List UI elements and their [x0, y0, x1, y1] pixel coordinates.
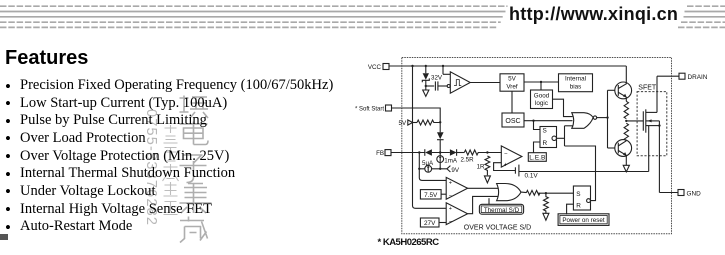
current source 1mA	[437, 153, 458, 169]
wire OSC to latch1 S	[534, 121, 541, 130]
resistor R3 (lower driver)	[624, 123, 628, 140]
svg-text:27V: 27V	[424, 220, 436, 227]
ground arrow below zener	[423, 86, 429, 96]
SenseFET M1	[643, 109, 659, 132]
big glyph 3	[180, 155, 207, 183]
watermark (gray seal of distributor)	[138, 82, 213, 255]
IC outline box	[402, 58, 672, 234]
svg-text:+: +	[504, 162, 508, 168]
svg-text:32V: 32V	[431, 75, 443, 82]
svg-text:* Soft Start: * Soft Start	[355, 106, 384, 112]
block 27V	[420, 218, 446, 227]
pin Soft Start	[355, 105, 392, 112]
resistor R5 (vertical)	[544, 193, 549, 213]
svg-text:Thermal S/D: Thermal S/D	[484, 207, 520, 214]
svg-text:S: S	[576, 191, 580, 198]
wire soft start	[392, 108, 441, 122]
wire SFET source down to GND	[658, 121, 660, 193]
svg-text:bias: bias	[570, 84, 582, 91]
wire comp2 output to OR gate	[468, 196, 499, 213]
wire latch1 Q down to latch2 Q	[565, 146, 596, 201]
latch U6 S/R	[573, 186, 590, 210]
svg-text:5µA: 5µA	[422, 160, 434, 167]
ground arrow below R5	[543, 213, 549, 220]
svg-text:OVER VOLTAGE S/D: OVER VOLTAGE S/D	[464, 225, 531, 232]
svg-text:SFET: SFET	[638, 84, 657, 91]
transistor Q2 (lower driver)	[615, 140, 632, 166]
wire rail to comp1 plus	[419, 153, 446, 181]
wire U1 output	[470, 82, 500, 84]
resistor 1R	[477, 156, 490, 175]
battery 0.1V	[515, 165, 538, 180]
svg-text:5V: 5V	[399, 120, 407, 127]
ground arrow driver emitter	[623, 165, 629, 172]
right line group	[678, 6, 725, 27]
pin GND	[678, 190, 701, 198]
resistor R1 (soft start)	[417, 120, 440, 125]
svg-text:7.5V: 7.5V	[424, 192, 438, 199]
top banner decorative lines + url	[0, 0, 725, 34]
wire sense/source rail	[519, 171, 649, 173]
wire to Good logic	[540, 82, 542, 90]
diode D4 (points right)	[450, 149, 464, 156]
block Power on reset	[558, 204, 609, 225]
wire to SFET gate	[626, 120, 643, 122]
block L.E.B	[528, 153, 546, 162]
block Internal bias	[559, 74, 593, 92]
features heading	[5, 47, 88, 70]
OR gate G2	[497, 184, 521, 201]
wire FB lower (to 9V zener)	[419, 168, 447, 170]
wire Good logic to gate top input	[553, 99, 573, 116]
resistor 2.5R	[461, 150, 502, 164]
svg-text:GND: GND	[687, 191, 702, 198]
NOR gate G1	[572, 113, 597, 129]
wire FB	[391, 152, 425, 154]
wire comp1 output to OR gate	[468, 187, 499, 189]
wire gate output to driver	[597, 117, 608, 119]
svg-text:0.1V: 0.1V	[525, 172, 539, 179]
svg-text:* KA5H0265RC: * KA5H0265RC	[378, 237, 440, 248]
svg-text:DRAIN: DRAIN	[688, 74, 708, 81]
svg-text:9V: 9V	[451, 167, 459, 174]
svg-text:R: R	[576, 203, 581, 210]
big glyph 4	[180, 184, 212, 214]
node below zener	[425, 85, 427, 87]
features bullet list	[5, 77, 405, 236]
svg-text:−: −	[504, 151, 508, 157]
svg-text:Vref: Vref	[506, 83, 518, 90]
block OSC	[502, 113, 524, 127]
pin FB	[376, 150, 391, 157]
wire SFET drain up	[656, 76, 658, 112]
wire to latch2 S	[538, 192, 574, 194]
resistor R4	[526, 190, 540, 195]
diode D2 (vertical)	[437, 122, 444, 152]
svg-text:−: −	[449, 193, 452, 199]
block Good logic	[531, 90, 553, 109]
wire OSC output to gate	[524, 120, 573, 122]
pin DRAIN	[679, 73, 708, 81]
UVLO comparator U1	[443, 66, 470, 93]
resistor R2 (upper driver)	[624, 101, 628, 118]
big glyph 1	[180, 96, 209, 119]
svg-text:L.E.B: L.E.B	[529, 155, 546, 162]
zener 9V	[447, 166, 460, 174]
block 7.5V	[420, 190, 446, 199]
wire L.E.B to latch R	[534, 142, 541, 153]
svg-text:S: S	[543, 128, 547, 135]
block 5V Vref	[500, 74, 524, 91]
diode D3 (points left)	[425, 149, 450, 156]
svg-text:FB: FB	[376, 150, 384, 157]
comparator U4 (7.5V UVLO)	[446, 177, 467, 199]
wire Vref to Internal bias	[524, 81, 559, 83]
wire OR output	[521, 191, 526, 194]
SFET dashed enclosure	[637, 92, 667, 156]
big glyph 5	[180, 217, 208, 243]
svg-text:logic: logic	[535, 100, 548, 107]
wire Vref to OSC	[511, 91, 513, 113]
current source 5uA	[422, 160, 434, 172]
svg-text:R: R	[543, 140, 548, 147]
left line group	[0, 6, 508, 27]
svg-text:5V: 5V	[508, 76, 517, 83]
ground arrow below 1R	[484, 176, 490, 183]
wire GND	[659, 192, 678, 194]
svg-text:VCC: VCC	[368, 64, 382, 71]
svg-text:OSC: OSC	[505, 118, 520, 125]
wire SFET sense source to rail	[648, 126, 650, 172]
wire latch1 Q to gate bottom input	[557, 126, 574, 146]
svg-text:1mA: 1mA	[444, 158, 458, 165]
small glyph col	[164, 125, 178, 143]
pin VCC	[368, 64, 389, 72]
svg-text:+: +	[449, 180, 452, 186]
svg-text:+: +	[449, 206, 452, 212]
transistor Q1 (upper driver)	[615, 66, 632, 101]
node gate drive	[625, 120, 627, 122]
svg-text:Internal: Internal	[565, 76, 586, 83]
wire drain to pin	[657, 75, 679, 77]
wire op-amp plus input	[494, 163, 516, 171]
comparator U5 (27V OVP)	[446, 203, 467, 225]
svg-text:Power on reset: Power on reset	[562, 217, 605, 224]
big glyph 2	[180, 122, 209, 145]
latch U2 S/R	[540, 127, 557, 148]
capacitor C1	[426, 81, 447, 90]
zener D1 32V	[422, 66, 443, 86]
svg-text:1R: 1R	[477, 163, 485, 170]
svg-text:−: −	[449, 219, 452, 225]
op-amp U3 (PWM comparator)	[501, 146, 522, 168]
wire VCC vertical rail to OVP comparator	[413, 66, 447, 208]
svg-text:2.5R: 2.5R	[461, 157, 475, 164]
node on VCC rail	[411, 65, 413, 67]
svg-text:Good: Good	[534, 92, 550, 99]
startup 5V source	[399, 120, 418, 127]
block Thermal S/D	[479, 198, 523, 214]
stray print mark bottom-left	[0, 234, 8, 240]
wire VCC rail (horizontal)	[389, 65, 626, 67]
wire driver base rail	[608, 90, 616, 148]
